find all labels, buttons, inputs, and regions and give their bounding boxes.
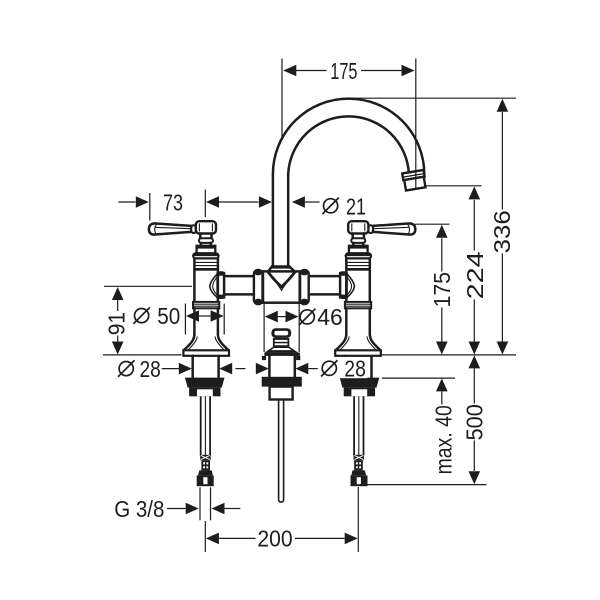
shank: [191, 356, 194, 378]
bridge pipe left: [224, 276, 253, 294]
hub neck: [199, 234, 202, 239]
svg-text:200: 200: [257, 526, 292, 552]
svg-text:73: 73: [163, 189, 183, 215]
lever handle grip: [149, 223, 191, 234]
dim diameter 21: [259, 193, 366, 219]
spout nozzle aerator: [402, 170, 426, 191]
tee V notch: [268, 272, 294, 290]
dim 224: [424, 186, 488, 355]
spout arc inner: [288, 116, 409, 174]
svg-text:28: 28: [344, 355, 366, 381]
svg-text:28: 28: [140, 356, 161, 382]
svg-text:G 3/8: G 3/8: [114, 496, 164, 522]
svg-text:336: 336: [489, 210, 515, 253]
svg-text:224: 224: [462, 251, 488, 299]
hub narrow: [200, 243, 203, 246]
svg-text:21: 21: [346, 193, 366, 219]
tee left end cap: [254, 270, 263, 305]
dim 200: [205, 487, 358, 552]
dim 73: [118, 189, 258, 220]
svg-text:175: 175: [330, 58, 357, 84]
hub ring: [199, 238, 213, 243]
dim diameter 28 right (white patch over shank): [318, 355, 368, 381]
pop-up rod: [279, 400, 284, 503]
lower cylinder: [193, 308, 196, 334]
dim G 3/8: [114, 487, 240, 522]
drain locknut: [262, 377, 302, 387]
svg-text:max. 40: max. 40: [430, 405, 456, 474]
drain body below deck: [262, 356, 300, 377]
valve body: [193, 258, 196, 302]
pipe joint flange: [217, 271, 224, 276]
svg-text:50: 50: [157, 303, 180, 329]
bell flare: [184, 334, 195, 350]
svg-text:175: 175: [429, 272, 455, 307]
compression fitting: [200, 455, 210, 460]
spout riser tube: [273, 174, 288, 265]
dim 175 vertical: [415, 224, 455, 354]
dim 336: [352, 98, 516, 354]
svg-text:91: 91: [103, 312, 129, 335]
collar ring: [193, 253, 218, 258]
riser base flare: [268, 265, 294, 271]
dim 175 top: [282, 58, 416, 190]
supply tube: [200, 396, 202, 455]
dim 500: [360, 355, 487, 484]
deck reference line: [103, 354, 516, 356]
dim diameter 50: [133, 303, 224, 334]
dim diameter 28 left: [118, 356, 320, 382]
faucet body group: [149, 99, 426, 503]
tee right end cap: [300, 270, 309, 305]
bonnet: [197, 246, 216, 254]
svg-text:46: 46: [317, 304, 343, 330]
center drain knob: [264, 328, 300, 356]
spout arc outer: [273, 99, 424, 175]
locknut: [185, 378, 225, 388]
bridge pipe right: [310, 276, 340, 294]
lever neck ring: [191, 225, 196, 233]
dim diameter 46: [264, 303, 343, 352]
right column (mirror of left): [335, 221, 415, 486]
drain fitting box: [270, 387, 293, 400]
dim max 40: [382, 378, 456, 474]
left column: [149, 221, 229, 486]
svg-text:500: 500: [461, 404, 487, 440]
outlet fitting: [189, 388, 220, 397]
bridge tee body: [257, 271, 306, 302]
dim 91: [103, 286, 192, 354]
handle hub cap: [196, 221, 216, 233]
base plate: [183, 350, 229, 356]
ring band: [193, 302, 219, 308]
